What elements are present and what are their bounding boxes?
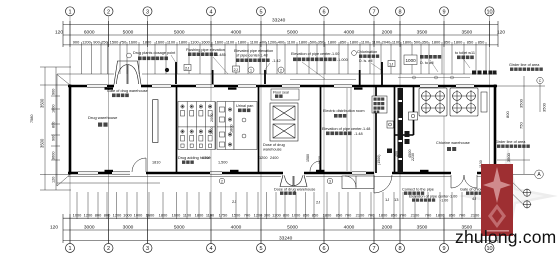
svg-text:3500: 3500 [519,98,524,108]
svg-text:1800: 1800 [230,125,234,133]
site fence line top [57,74,497,85]
internal wall x=320.5 [320,86,322,173]
svg-text:1500: 1500 [110,39,119,44]
svg-text:10: 10 [486,9,492,15]
svg-text:400: 400 [278,39,285,44]
svg-text:1200: 1200 [259,156,267,160]
svg-text:2040: 2040 [382,39,391,44]
svg-text:-1.48: -1.48 [354,132,363,136]
annotation cluster: elevation of pipe center -1.00 [291,52,339,56]
svg-text:5000: 5000 [287,224,298,230]
annotation cluster: to toilet [455,51,475,55]
svg-text:1200: 1200 [254,213,263,218]
tag circle a [127,53,132,58]
svg-text:1000: 1000 [292,213,301,218]
watermark zhulong.com text [455,227,556,247]
chlorine equipment group 2 [450,88,478,116]
grid bubble 7 top [370,7,379,16]
svg-text:1800: 1800 [454,39,463,44]
svg-text:to toilet w11: to toilet w11 [455,51,475,55]
svg-text:1750: 1750 [219,213,228,218]
grid bubble 8 top [396,7,405,16]
svg-text:9: 9 [442,9,445,15]
girder annotation tag C [537,77,543,83]
svg-text:1800: 1800 [299,39,308,44]
rotated dim 4500 [408,150,412,158]
building bottom wall [68,172,497,175]
porch double door top [114,61,141,85]
internal wall x=394.5 [394,86,396,173]
svg-text:Girder line of area: Girder line of area [495,140,526,144]
left outer wall [69,85,72,175]
svg-text:700: 700 [244,213,251,218]
access pit [342,176,374,189]
svg-text:1200: 1200 [84,213,93,218]
svg-text:3: 3 [329,179,331,183]
grid bubble 2 bottom [104,244,113,253]
svg-text:120: 120 [55,30,63,36]
svg-text:5: 5 [259,9,262,15]
svg-text:-1.000: -1.000 [337,58,348,62]
svg-text:2000: 2000 [210,114,214,122]
grid bubble 9 bottom [440,244,449,253]
svg-text:7580: 7580 [30,115,34,123]
svg-text:3500: 3500 [506,152,511,162]
grid bubble 4 top [207,7,216,16]
svg-text:1000: 1000 [210,127,214,135]
svg-text:6000: 6000 [84,30,95,36]
svg-text:1J: 1J [385,197,389,202]
svg-text:Dose of drug warehouse: Dose of drug warehouse [274,188,315,192]
fixture block 2 [216,102,234,150]
valve dot [165,68,169,72]
svg-text:-1.42: -1.42 [272,59,281,63]
svg-text:2000: 2000 [382,30,393,36]
svg-text:6: 6 [322,246,325,252]
label 33240 top [272,18,286,24]
grid bubble 7 bottom [370,244,379,253]
svg-text:1100: 1100 [190,39,199,44]
dimension ticks bottom [63,214,498,243]
svg-text:2100: 2100 [411,213,420,218]
svg-text:5000: 5000 [123,30,134,36]
svg-text:-1.485: -1.485 [215,53,226,57]
svg-text:1100: 1100 [361,39,370,44]
svg-text:2100: 2100 [471,213,480,218]
svg-text:800: 800 [283,213,290,218]
svg-text:1000: 1000 [406,58,417,63]
leader lines to target tags [490,167,523,204]
target tag 1 [523,189,531,197]
svg-text:5000: 5000 [174,224,185,230]
svg-text:1580: 1580 [306,154,310,162]
grid bubble 2 top [104,7,113,16]
fixture block 1 (toilet stalls) [178,102,215,150]
svg-text:5: 5 [259,246,262,252]
extension lines bottom [77,192,487,219]
svg-text:Elevation of pipe center-1.00: Elevation of pipe center-1.00 [409,195,457,199]
grid bubble 8 bottom [396,244,405,253]
svg-text:6: 6 [322,9,325,15]
svg-text:Dose of drug: Dose of drug [263,143,285,147]
svg-text:Flushing pipe elevation: Flushing pipe elevation [186,48,225,52]
annotation cluster: elevated pipe elevation [234,49,273,58]
watermark star [458,146,558,246]
svg-text:2400: 2400 [270,156,278,160]
svg-text:of pipe center-1.48: of pipe center-1.48 [236,54,268,58]
svg-text:850: 850 [467,39,474,44]
svg-text:33240: 33240 [272,18,286,24]
grid bubble 6 top [320,7,329,16]
svg-text:2: 2 [107,9,110,15]
internal wall x=413.5 [413,86,415,135]
svg-text:1100: 1100 [250,39,259,44]
svg-text:1800: 1800 [238,39,247,44]
svg-text:Elevation of pipe center-1.48: Elevation of pipe center-1.48 [322,127,370,131]
svg-text:900: 900 [93,39,100,44]
chlorine pipe shaft room label box [372,96,387,113]
svg-text:7: 7 [372,246,375,252]
shaft side equipment [387,112,418,128]
grid axis lines [70,16,490,244]
svg-text:4: 4 [209,9,212,15]
svg-text:1100: 1100 [183,213,192,218]
tag circles on apron [219,178,333,184]
target tag 2 [523,200,531,208]
annotation cluster: drug plants dosage point [133,51,176,55]
fixture block 3 (urinal room) [234,102,257,150]
grid bubble 1 bottom [66,244,75,253]
access to the pipe label [402,188,434,192]
door arc pump room [310,161,320,172]
svg-text:4000: 4000 [344,224,355,230]
floor seal box [271,89,299,100]
svg-text:C: C [539,79,542,83]
svg-text:2000: 2000 [382,224,393,230]
single door arc bottom [374,175,392,193]
svg-text:-1.00: -1.00 [440,199,448,203]
svg-text:1800: 1800 [403,39,412,44]
svg-text:1J: 1J [389,61,393,66]
gate of dose label bottom [274,188,315,192]
grid bubble 10 top [485,7,494,16]
svg-text:2: 2 [107,246,110,252]
chlorine warehouse label [436,141,470,145]
svg-text:120: 120 [52,177,56,183]
svg-text:3: 3 [146,9,149,15]
svg-text:850: 850 [340,39,347,44]
svg-text:Elevation of pipe center-1.00: Elevation of pipe center-1.00 [291,52,339,56]
svg-text:2: 2 [280,68,282,72]
grid bubble 5 top [257,7,266,16]
svg-text:300: 300 [264,213,271,218]
grid bubble 3 bottom [143,244,152,253]
svg-text:850: 850 [312,213,319,218]
svg-text:350: 350 [422,39,429,44]
internal wall x=176.5 [176,86,178,173]
pump equipment block [270,103,298,141]
fence tag circles [248,67,284,73]
dim line 1 bottom [63,217,498,219]
box tag 1J [388,61,395,67]
svg-text:4000: 4000 [231,224,242,230]
axis line and bubble A right [499,170,543,179]
rotated dims in toilets [210,114,234,135]
dim line 2 bottom [63,229,498,231]
svg-text:1100: 1100 [392,39,401,44]
dimension ticks top [63,21,498,47]
svg-text:3: 3 [146,246,149,252]
right outer wall [494,85,497,175]
wall pilasters [105,88,429,173]
svg-text:Chlorination: Chlorination [357,50,377,54]
dimension line total top 33240 [63,24,498,26]
annotation leaders top [171,55,470,79]
svg-text:13: 13 [394,197,399,202]
svg-text:850: 850 [478,39,485,44]
svg-text:5000: 5000 [174,30,185,36]
pipe chase lines electric room [347,88,351,171]
svg-text:1: 1 [68,9,71,15]
svg-text:4: 4 [209,246,212,252]
elevation of pipe center label bottom [409,195,457,199]
svg-text:1630: 1630 [318,156,322,164]
svg-text:750: 750 [120,39,127,44]
svg-text:1600: 1600 [201,39,210,44]
grid bubble 5 bottom [257,244,266,253]
svg-text:Girder line of area: Girder line of area [509,63,540,67]
svg-text:700: 700 [425,213,432,218]
svg-text:1800: 1800 [432,39,441,44]
svg-text:33240: 33240 [279,235,293,241]
svg-text:1500: 1500 [232,213,241,218]
svg-text:D. ls. wll: D. ls. wll [359,59,373,63]
svg-text:850: 850 [303,213,310,218]
svg-text:8: 8 [398,9,401,15]
tag box 1000 [404,55,417,65]
svg-text:Electric distribution room: Electric distribution room [323,109,365,113]
louver bar top right [472,71,497,75]
annotation cluster: chlorination dosing [420,55,441,65]
svg-text:1000: 1000 [73,213,82,218]
extension lines top [82,42,487,74]
internal wall x=258.5 [258,86,260,173]
grid bubble 9 top [440,7,449,16]
svg-text:Comect to the pipe: Comect to the pipe [402,188,434,192]
svg-text:1800: 1800 [328,39,337,44]
svg-text:warehouse: warehouse [263,148,282,152]
svg-text:Chlorine warehouse: Chlorine warehouse [436,141,470,145]
svg-text:zhulong.com: zhulong.com [455,227,556,247]
svg-text:2J: 2J [185,65,189,70]
building top wall [68,85,497,88]
svg-text:1000: 1000 [134,213,143,218]
svg-text:3000: 3000 [123,224,134,230]
svg-text:1800: 1800 [350,39,359,44]
svg-text:1600: 1600 [156,39,165,44]
svg-text:800: 800 [95,213,102,218]
svg-text:900: 900 [73,39,80,44]
porch double door bottom [280,175,307,187]
tag circle b [352,51,357,56]
drug warehouse label [88,115,118,120]
svg-text:1800: 1800 [52,105,56,113]
double door chlorine [451,175,477,188]
svg-text:1: 1 [68,246,71,252]
svg-text:1600: 1600 [146,213,155,218]
svg-text:900: 900 [52,135,56,141]
interior small dims [152,156,278,165]
svg-text:400: 400 [395,151,399,157]
svg-text:850: 850 [444,39,451,44]
girder line annotation top right [509,63,540,67]
svg-text:3000: 3000 [84,224,95,230]
sill line mid [290,79,356,81]
svg-text:3500: 3500 [417,224,428,230]
dimension row segments top [55,30,505,36]
svg-text:500: 500 [414,39,421,44]
svg-text:1000: 1000 [123,213,132,218]
svg-text:4000: 4000 [231,30,242,36]
dose of drug warehouse label [263,143,285,152]
gate of drug warehouse label [107,89,148,93]
svg-text:3500: 3500 [40,98,45,108]
dark pipe shaft band [398,88,404,173]
svg-text:1200: 1200 [82,39,91,44]
chlorine small unit [481,92,487,112]
shaft in drug warehouse [153,100,158,143]
svg-text:Drug plants dosage point: Drug plants dosage point [133,51,176,55]
box tag 2J a [184,65,191,71]
svg-text:2J: 2J [234,67,238,72]
svg-text:Urinal pan: Urinal pan [236,104,253,108]
svg-text:1100: 1100 [287,39,296,44]
svg-text:850: 850 [449,213,456,218]
svg-text:8: 8 [398,246,401,252]
risers above wall [176,62,382,87]
svg-text:5000: 5000 [287,30,298,36]
svg-text:800: 800 [52,122,56,128]
svg-text:3500: 3500 [461,30,472,36]
svg-text:1800: 1800 [379,213,388,218]
svg-text:500: 500 [310,39,317,44]
svg-text:1,500: 1,500 [218,161,228,165]
electric distribution room label [323,109,365,113]
grid bubble 6 bottom [320,244,329,253]
zhulong red badge [481,164,513,236]
svg-text:4J: 4J [472,196,476,201]
grid bubble 4 bottom [207,244,216,253]
svg-text:9: 9 [442,246,445,252]
urinal pan label [236,104,253,108]
svg-text:850: 850 [391,213,398,218]
svg-text:800: 800 [505,111,510,118]
svg-text:800: 800 [104,213,111,218]
grid bubble 3 top [143,7,152,16]
box tag 2J b [233,66,240,72]
svg-text:1100: 1100 [206,213,215,218]
svg-text:1100: 1100 [226,39,235,44]
drug adding house label [178,156,210,160]
svg-text:2100: 2100 [356,213,365,218]
windows bottom wall thin lines [78,172,366,174]
svg-text:1800: 1800 [179,39,188,44]
elevation pipe label electric [322,127,370,131]
girder line annotation right 2 [495,140,526,144]
internal wall x=376 [375,86,377,173]
svg-text:700: 700 [459,213,466,218]
svg-text:Elevated pipe elevation: Elevated pipe elevation [234,49,273,53]
svg-text:2230: 2230 [411,153,415,161]
windows top wall [87,85,474,87]
svg-text:750: 750 [519,122,524,129]
svg-text:850: 850 [336,213,343,218]
svg-text:1200: 1200 [268,39,277,44]
svg-text:1200: 1200 [272,213,281,218]
right dim lines [497,76,545,174]
svg-text:1600: 1600 [215,39,224,44]
svg-text:4000: 4000 [344,30,355,36]
J tags bottom [232,196,476,205]
svg-text:700: 700 [345,213,352,218]
svg-text:3600: 3600 [52,152,56,160]
svg-text:6700: 6700 [202,156,210,160]
svg-text:3500: 3500 [542,102,547,112]
svg-text:1100: 1100 [167,39,176,44]
apron line below wall [68,176,497,178]
left dim lines [40,67,71,190]
svg-text:3500: 3500 [417,30,428,36]
internal wall y=135 [395,134,414,136]
svg-text:Floor seal: Floor seal [273,91,289,95]
dimension row small top [63,39,498,45]
svg-text:3500: 3500 [40,138,45,148]
annotation cluster: flushing pipe elevation [186,48,225,52]
grid bubble 1 top [66,7,75,16]
svg-text:1100: 1100 [372,39,381,44]
pipe line above wall [398,76,470,79]
svg-text:(1500): (1500) [377,155,381,165]
svg-text:Gate of drug warehouse: Gate of drug warehouse [107,89,148,93]
fence line bottom left [57,74,160,186]
svg-text:1600: 1600 [129,39,138,44]
svg-text:2J: 2J [316,200,320,205]
door arc left room bottom [132,158,146,172]
gate of chlorine warehouse label [460,188,506,192]
svg-text:120: 120 [50,224,58,230]
svg-text:2J: 2J [232,199,236,204]
dim line 3 bottom 33240 [63,235,498,241]
svg-text:1800: 1800 [195,213,204,218]
svg-text:1600: 1600 [172,213,181,218]
grid bubble 10 bottom [485,244,494,253]
svg-text:Drug warehouse: Drug warehouse [88,115,118,120]
svg-text:1200: 1200 [113,213,122,218]
svg-text:1800: 1800 [159,213,168,218]
svg-text:D. to wll: D. to wll [420,61,434,65]
svg-text:1: 1 [250,68,252,72]
svg-text:700: 700 [400,213,407,218]
svg-text:900: 900 [52,89,56,95]
svg-text:2: 2 [221,179,223,183]
svg-text:7: 7 [372,9,375,15]
chlorine equipment group 1 [419,88,447,116]
annotation cluster: chlorination pipe [357,50,377,54]
svg-text:1810: 1810 [152,161,160,165]
